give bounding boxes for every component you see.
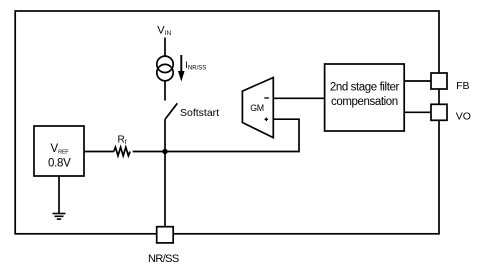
current source I1 (two overlapping circles): [157, 56, 173, 81]
minus input marker: [264, 97, 269, 99]
wire GM minus input to filter box: [273, 97, 324, 99]
plus input marker: [265, 118, 269, 120]
wire switch to node to NR/SS pin: [164, 119, 166, 227]
wire GM plus branch vertical: [298, 119, 300, 152]
svg-text:Softstart: Softstart: [180, 107, 219, 119]
wire resistor to node and on to GM plus branch: [133, 151, 299, 153]
wire VREF to resistor: [84, 151, 114, 153]
svg-text:2nd stage filter: 2nd stage filter: [330, 82, 400, 94]
svg-text:NR/SS: NR/SS: [148, 253, 179, 265]
svg-text:VO: VO: [456, 111, 471, 123]
switch S1 (softstart) blade: [165, 103, 177, 119]
pin NR/SS (square pad on bottom border): [157, 227, 174, 243]
wire GM plus input: [273, 118, 300, 120]
wire current source to switch: [164, 81, 166, 101]
wire filter box to FB pin: [404, 80, 431, 82]
svg-text:0.8V: 0.8V: [48, 157, 71, 169]
resistor Rf: [114, 147, 130, 156]
svg-text:compensation: compensation: [331, 96, 398, 108]
wire VIN to current source: [164, 38, 166, 57]
op-amp GM (transconductance amp, pointing left): [242, 78, 273, 138]
svg-text:FB: FB: [456, 80, 469, 92]
junction dot on NR/SS net: [162, 149, 167, 154]
wire filter box to VO pin: [404, 111, 431, 113]
current arrow INR/SS: [178, 55, 185, 82]
IC boundary rectangle: [15, 11, 439, 234]
reference box VREF 0.8V: [34, 126, 84, 176]
pin FB (square pad on border): [431, 73, 447, 89]
block U2 2nd stage filter compensation: [325, 64, 405, 131]
svg-text:GM: GM: [250, 103, 264, 113]
ground: [53, 176, 66, 219]
pin VO (square pad on border): [431, 104, 447, 120]
